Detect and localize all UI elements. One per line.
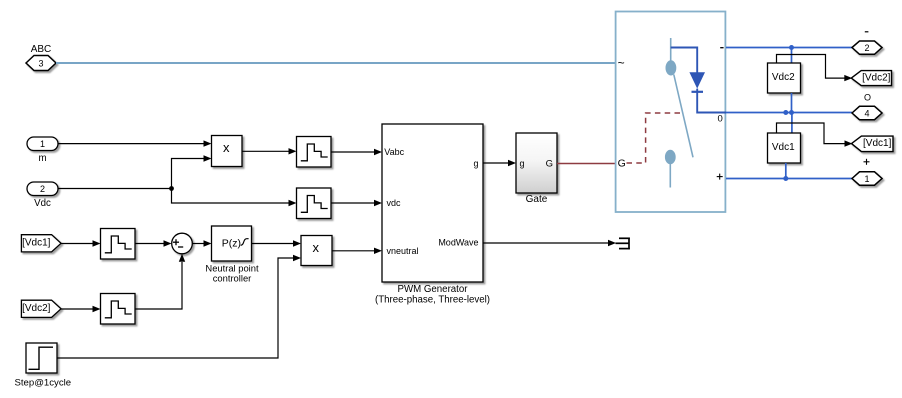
sum minus sign [178, 246, 183, 248]
step source Step@1cycle [26, 343, 57, 373]
zero-order hold ZOH3 [101, 229, 136, 260]
svg-text:(Three-phase, Three-level): (Three-phase, Three-level) [375, 295, 490, 306]
label + (above port 1) [864, 161, 870, 163]
junction neutral / Vdc2 [789, 110, 794, 115]
svg-text:1: 1 [40, 139, 45, 149]
svg-text:g: g [520, 158, 525, 168]
wire [Vdc2] to ZOH4 [61, 308, 94, 310]
junction neutral / Vdc1 [783, 110, 788, 115]
terminal label + (dc plus) [717, 176, 723, 178]
svg-text:4: 4 [864, 108, 869, 118]
svg-text:Step@1cycle: Step@1cycle [14, 377, 71, 388]
svg-text:[Vdc1]: [Vdc1] [863, 138, 892, 149]
junction Vdc node [169, 186, 174, 191]
svg-text:G: G [546, 158, 553, 169]
product P1 (x) [212, 136, 243, 167]
block Gate [516, 133, 557, 193]
from tag [Vdc2] [21, 300, 61, 317]
label - (above port 2) [865, 31, 869, 33]
wire Vdc1 measurement to goto tag [777, 123, 846, 144]
wire ABC (three-phase, light blue) [56, 62, 616, 64]
switch arm [674, 75, 693, 158]
wire m to product P1 [58, 143, 205, 145]
wire dc minus rail [726, 47, 852, 49]
svg-text:1: 1 [864, 174, 869, 184]
inport 1 m [27, 137, 58, 151]
wire Vdc2 measurement to goto tag [777, 55, 846, 79]
voltage measurement Vdc1 [768, 133, 801, 163]
svg-text:ABC: ABC [31, 44, 52, 55]
svg-text:Vdc2: Vdc2 [772, 72, 795, 83]
svg-text:Gate: Gate [526, 194, 548, 205]
dashed gate path (maroon) [627, 113, 682, 163]
wire switch to diode (dark blue) [671, 48, 698, 73]
goto tag [Vdc2] [851, 71, 891, 86]
svg-text:m: m [38, 153, 46, 164]
wire Vdc branch to ZOH2 [172, 189, 290, 204]
svg-text:3: 3 [38, 58, 43, 68]
svg-text:vdc: vdc [387, 198, 402, 208]
svg-text:O: O [864, 92, 871, 102]
wire P1 out to ZOH1 [242, 150, 290, 152]
outport 1 (hexagon connection port) [852, 172, 882, 185]
wire Vdc1 top stub [791, 113, 793, 134]
wire Step to product P2 [57, 258, 294, 358]
inport 2 Vdc [27, 182, 58, 196]
svg-text:[Vdc2]: [Vdc2] [22, 303, 51, 314]
wire Gate G to converter (maroon) [557, 163, 617, 165]
subsystem PWM Generator [382, 124, 483, 282]
svg-text:[Vdc1]: [Vdc1] [22, 237, 51, 248]
svg-text:g: g [473, 158, 478, 168]
zero-order hold ZOH4 [101, 294, 136, 325]
svg-text:G: G [618, 158, 626, 170]
wire PWM g to Gate [483, 162, 509, 164]
wire ZOH2 to PWM vdc [331, 202, 375, 204]
zero-order hold ZOH2 [297, 188, 332, 219]
wire [Vdc1] to ZOH3 [61, 243, 94, 245]
outport 2 (hexagon connection port) [852, 41, 882, 54]
svg-text:Vdc: Vdc [34, 198, 51, 209]
wire diode to 0 terminal (dark blue) [697, 89, 726, 113]
discrete controller P(z) [212, 226, 252, 261]
svg-text:2: 2 [40, 184, 45, 194]
switch lower stub [669, 164, 671, 188]
terminal label - (dc minus) [720, 47, 723, 49]
zero-order hold ZOH1 [297, 137, 332, 168]
from tag [Vdc1] [21, 235, 61, 252]
wire dc neutral rail [726, 112, 852, 114]
wire ZOH4 to sum minus input [135, 262, 182, 309]
wire ZOH3 to sum [135, 243, 165, 245]
svg-text:Vdc1: Vdc1 [772, 142, 795, 153]
wire Vdc2 bottom stub [791, 93, 793, 113]
svg-text:PWM Generator: PWM Generator [398, 284, 469, 295]
junction plus rail / Vdc1 [783, 176, 788, 181]
wire dc plus rail [726, 178, 852, 180]
svg-text:P(z): P(z) [222, 238, 241, 250]
wire P2 to PWM vneutral [332, 250, 375, 252]
svg-text:[Vdc2]: [Vdc2] [862, 72, 891, 83]
svg-text:vneutral: vneutral [387, 246, 419, 256]
switch upper stub [670, 38, 672, 61]
svg-text:x: x [223, 140, 230, 155]
svg-text:x: x [313, 240, 320, 255]
diode D1 [689, 72, 705, 88]
wire P(z) to product P2 [252, 243, 295, 245]
switch upper contact Q1 (teardrop) [666, 60, 677, 75]
svg-text:controller: controller [213, 273, 252, 284]
sum block S1 [172, 233, 193, 254]
outport 4 (hexagon connection port) [852, 106, 882, 119]
svg-text:2: 2 [864, 43, 869, 53]
junction minus rail / Vdc2 [789, 45, 794, 50]
switch lower contact Q2 (teardrop) [665, 150, 676, 165]
voltage measurement Vdc2 [768, 63, 801, 93]
product P2 (x) [301, 236, 332, 266]
wire sum to P(z) [192, 243, 204, 245]
wire Vdc2 top stub [791, 48, 793, 64]
sum plus sign [173, 241, 179, 243]
svg-text:~: ~ [618, 56, 625, 70]
svg-text:Vabc: Vabc [384, 147, 404, 157]
inport 3 ABC (hexagon connection port) [26, 56, 56, 71]
svg-text:ModWave: ModWave [438, 237, 478, 247]
svg-text:0: 0 [718, 114, 723, 125]
terminator ModWave [616, 238, 630, 250]
wire Vdc1 bottom stub [785, 163, 787, 179]
wire PWM ModWave to terminator [483, 242, 609, 244]
wire Vdc to junction [58, 159, 205, 189]
goto tag [Vdc1] [852, 136, 894, 152]
subsystem half-bridge converter [616, 12, 726, 213]
wire ZOH1 to PWM Vabc [331, 151, 375, 153]
